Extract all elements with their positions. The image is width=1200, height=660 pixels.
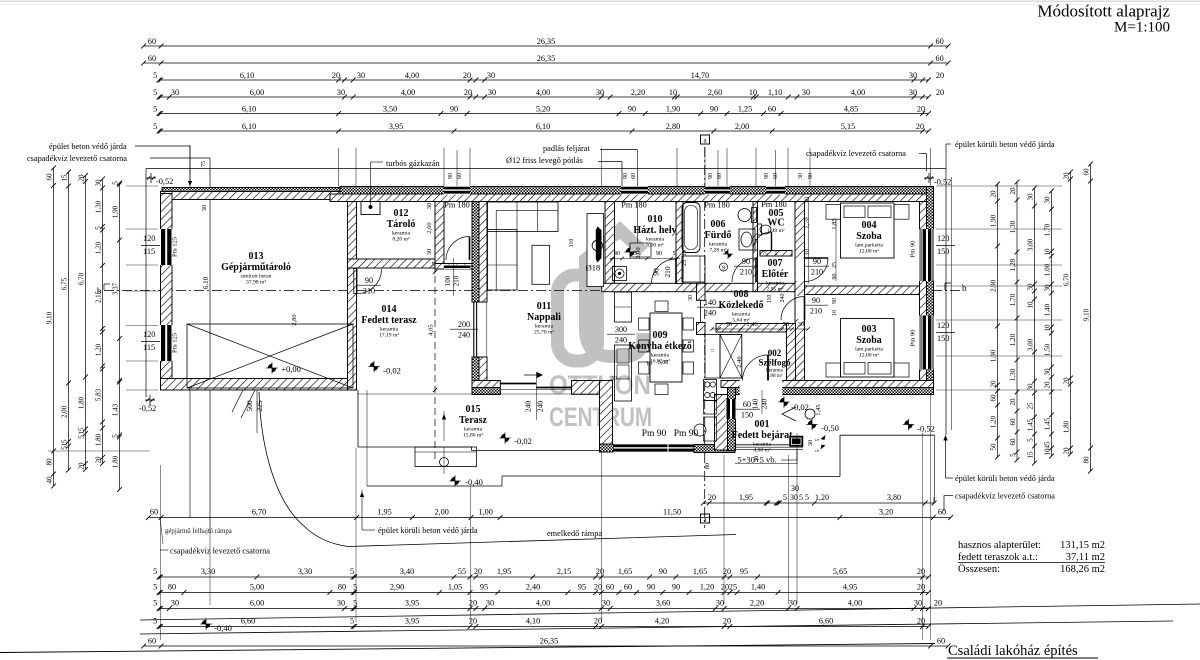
svg-text:4,95: 4,95 — [843, 583, 857, 592]
svg-text:4,00: 4,00 — [851, 88, 865, 97]
nappali east wall upper — [605, 202, 615, 292]
svg-text:3,37: 3,37 — [112, 282, 120, 295]
row C (y=592.5) — [159, 592, 929, 594]
svg-text:60: 60 — [631, 173, 637, 179]
svg-text:003: 003 — [862, 324, 877, 335]
corridor->003 door — [804, 297, 806, 321]
svg-text:120: 120 — [937, 321, 949, 330]
pantry shelf + szélfogó closet — [705, 335, 720, 379]
svg-text:20: 20 — [934, 599, 942, 608]
svg-text:30: 30 — [611, 376, 617, 382]
svg-text:30: 30 — [337, 88, 345, 97]
svg-text:padlás feljárat: padlás feljárat — [543, 144, 590, 153]
svg-text:15: 15 — [61, 439, 69, 447]
svg-text:-0,02: -0,02 — [514, 436, 532, 446]
svg-text:60: 60 — [606, 583, 614, 592]
section line a-a vertical — [704, 147, 706, 528]
svg-text:20: 20 — [990, 190, 998, 198]
chimney niche — [587, 214, 604, 287]
row 6 — [159, 130, 929, 132]
svg-text:30: 30 — [486, 599, 494, 608]
svg-text:210: 210 — [663, 266, 672, 278]
svg-text:30: 30 — [791, 484, 799, 493]
svg-text:90: 90 — [623, 173, 629, 179]
svg-text:007: 007 — [768, 258, 783, 269]
svg-text:3,50: 3,50 — [383, 104, 397, 113]
svg-text:1,30: 1,30 — [1009, 368, 1017, 381]
row 3 — [159, 79, 929, 81]
svg-text:004: 004 — [862, 220, 877, 231]
svg-text:14,70: 14,70 — [691, 71, 709, 80]
svg-text:csapadékvíz levezető csatorna: csapadékvíz levezető csatorna — [27, 154, 127, 163]
svg-text:006: 006 — [711, 219, 726, 230]
svg-text:1,40: 1,40 — [1044, 303, 1052, 316]
fürdő door (to corridor) — [755, 258, 757, 282]
svg-text:95: 95 — [480, 583, 488, 592]
svg-text:épület körüli beton védő járda: épület körüli beton védő járda — [378, 526, 478, 535]
svg-text:90: 90 — [647, 583, 655, 592]
kitchen counter along west — [615, 292, 632, 322]
svg-text:20: 20 — [469, 599, 477, 608]
svg-text:120: 120 — [937, 234, 949, 243]
svg-text:1,49 m²: 1,49 m² — [767, 228, 785, 234]
svg-text:5: 5 — [353, 583, 357, 592]
svg-text:Tároló: Tároló — [387, 219, 416, 230]
row A (y=517.5) — [148, 517, 950, 519]
svg-text:240: 240 — [780, 294, 786, 303]
svg-text:4,05: 4,05 — [428, 324, 435, 335]
svg-text:1,20: 1,20 — [990, 415, 998, 428]
porch west stub wall with window — [715, 395, 728, 451]
svg-text:240: 240 — [704, 309, 716, 318]
svg-text:20: 20 — [1009, 187, 1017, 195]
svg-text:20: 20 — [917, 567, 925, 576]
svg-text:200: 200 — [458, 320, 470, 329]
svg-text:20: 20 — [708, 493, 716, 502]
bed 003 — [826, 363, 841, 377]
row 4 — [159, 96, 929, 98]
svg-text:30: 30 — [95, 179, 103, 187]
svg-text:Fürdő: Fürdő — [705, 230, 732, 241]
svg-text:26,35: 26,35 — [540, 637, 558, 646]
svg-text:3,40: 3,40 — [400, 567, 414, 576]
svg-text:Gépjárműtároló: Gépjárműtároló — [221, 262, 291, 273]
svg-text:Pm 180: Pm 180 — [704, 201, 730, 210]
svg-text:5+30+5 vb.: 5+30+5 vb. — [737, 455, 776, 465]
svg-text:-0,50: -0,50 — [821, 423, 839, 433]
svg-text:168,26 m2: 168,26 m2 — [1060, 564, 1105, 575]
svg-text:csapadékvíz levezető csatorna: csapadékvíz levezető csatorna — [955, 492, 1055, 501]
taroló east niche door — [469, 237, 471, 261]
svg-text:012: 012 — [394, 208, 409, 219]
svg-text:4,00 m²: 4,00 m² — [753, 448, 771, 454]
svg-text:2,90: 2,90 — [990, 279, 998, 292]
svg-text:150: 150 — [741, 411, 753, 420]
svg-text:6,00 m²: 6,00 m² — [646, 243, 664, 249]
svg-text:1,43: 1,43 — [112, 403, 120, 416]
svg-text:15,86 m²: 15,86 m² — [463, 433, 483, 439]
svg-text:3,00: 3,00 — [1027, 338, 1035, 351]
svg-text:140: 140 — [704, 298, 716, 307]
svg-text:60: 60 — [150, 508, 158, 517]
svg-text:30: 30 — [596, 88, 604, 97]
svg-text:1,90: 1,90 — [990, 349, 998, 362]
svg-text:2,95 m²: 2,95 m² — [766, 287, 784, 293]
svg-text:110: 110 — [767, 295, 773, 304]
svg-text:1,70: 1,70 — [1044, 223, 1052, 236]
svg-text:Összesen:: Összesen: — [958, 563, 1000, 575]
svg-text:20: 20 — [916, 122, 924, 131]
svg-text:210: 210 — [810, 307, 822, 316]
fürdő/wc west wall — [753, 202, 758, 292]
wc toilet (small) — [758, 224, 762, 235]
svg-text:10: 10 — [1027, 301, 1035, 309]
svg-text:30: 30 — [1027, 383, 1035, 391]
svg-text:=: = — [711, 347, 715, 355]
svg-text:013: 013 — [249, 251, 264, 262]
svg-text:5: 5 — [783, 493, 787, 502]
svg-text:55: 55 — [458, 567, 466, 576]
corridor south wall — [716, 324, 790, 333]
svg-text:011: 011 — [537, 301, 551, 312]
svg-text:25: 25 — [832, 262, 838, 268]
svg-text:4,00: 4,00 — [401, 88, 415, 97]
svg-text:115: 115 — [143, 343, 155, 352]
svg-text:10: 10 — [749, 88, 757, 97]
svg-text:5: 5 — [815, 449, 821, 452]
svg-text:5: 5 — [153, 617, 157, 626]
svg-text:5: 5 — [78, 435, 86, 439]
svg-text:210: 210 — [740, 268, 752, 277]
svg-text:26,35: 26,35 — [537, 54, 555, 63]
svg-text:10: 10 — [832, 310, 838, 316]
svg-text:008: 008 — [734, 289, 749, 300]
svg-text:1,95: 1,95 — [739, 493, 753, 502]
svg-text:5: 5 — [673, 251, 676, 257]
svg-text:30: 30 — [805, 197, 811, 203]
svg-text:20: 20 — [1063, 377, 1071, 385]
svg-text:Szoba: Szoba — [856, 231, 882, 242]
svg-text:3,95: 3,95 — [405, 617, 419, 626]
svg-text:1,90: 1,90 — [112, 205, 120, 218]
svg-text:12,00 m²: 12,00 m² — [859, 249, 879, 255]
svg-text:3,30: 3,30 — [201, 567, 215, 576]
svg-text:15: 15 — [1027, 451, 1035, 459]
svg-text:5: 5 — [112, 434, 120, 438]
nappali sofa — [488, 202, 559, 232]
svg-text:20: 20 — [332, 71, 340, 80]
rows 1-2 — [144, 45, 949, 47]
svg-text:20: 20 — [990, 380, 998, 388]
svg-text:1,30: 1,30 — [1009, 220, 1017, 233]
svg-text:-0,40: -0,40 — [214, 623, 232, 633]
svg-text:30: 30 — [807, 440, 814, 447]
svg-text:-0,02: -0,02 — [383, 366, 401, 376]
svg-text:Fedett terasz: Fedett terasz — [361, 315, 417, 326]
svg-text:2,00: 2,00 — [735, 122, 749, 131]
svg-text:5: 5 — [153, 567, 157, 576]
svg-text:20: 20 — [1044, 381, 1052, 389]
svg-text:20: 20 — [78, 174, 86, 182]
svg-text:90: 90 — [813, 257, 821, 266]
svg-text:90: 90 — [450, 104, 458, 113]
svg-text:9,10: 9,10 — [1083, 308, 1091, 321]
svg-text:90: 90 — [742, 257, 750, 266]
svg-text:-0,52: -0,52 — [139, 404, 156, 413]
svg-text:15: 15 — [61, 174, 69, 182]
svg-text:2,00: 2,00 — [61, 405, 69, 418]
svg-text:2,80: 2,80 — [666, 122, 680, 131]
svg-text:4,10: 4,10 — [526, 617, 540, 626]
svg-text:5: 5 — [1027, 438, 1035, 442]
svg-text:120: 120 — [143, 330, 155, 339]
svg-text:90: 90 — [448, 173, 454, 179]
svg-text:90: 90 — [659, 567, 667, 576]
svg-text:2,15: 2,15 — [557, 567, 571, 576]
svg-text:30: 30 — [426, 249, 433, 256]
fürdő washbasin (east wall) — [739, 229, 755, 250]
svg-text:014: 014 — [382, 304, 397, 315]
svg-text:240: 240 — [761, 398, 769, 409]
svg-text:4,85: 4,85 — [844, 104, 858, 113]
svg-text:1,40: 1,40 — [751, 583, 765, 592]
row E (y=626.5) — [159, 626, 929, 628]
svg-text:5: 5 — [1009, 453, 1017, 457]
svg-text:Terasz: Terasz — [459, 415, 488, 426]
házt.hely/fürdő wall — [676, 202, 683, 284]
svg-text:Konyha étkező: Konyha étkező — [628, 341, 692, 352]
svg-text:17,19 m²: 17,19 m² — [379, 333, 399, 339]
svg-text:Pm 90: Pm 90 — [642, 429, 667, 439]
svg-text:Szoba: Szoba — [856, 335, 882, 346]
svg-text:7,28 m²: 7,28 m² — [709, 248, 727, 254]
svg-text:5: 5 — [153, 599, 157, 608]
svg-text:95: 95 — [578, 583, 586, 592]
svg-text:90: 90 — [628, 104, 636, 113]
svg-text:3,60: 3,60 — [656, 599, 670, 608]
kitchen/corridor wall — [697, 283, 706, 300]
svg-text:fedett teraszok a.t.:: fedett teraszok a.t.: — [958, 552, 1038, 563]
svg-text:20: 20 — [936, 88, 944, 97]
garage south wall — [161, 379, 357, 391]
svg-text:90: 90 — [832, 298, 838, 304]
házt.hely door — [675, 259, 677, 284]
svg-text:4,20: 4,20 — [655, 617, 669, 626]
svg-text:5: 5 — [815, 438, 821, 441]
svg-text:30: 30 — [487, 71, 495, 80]
fürdő: bathtub — [682, 203, 700, 253]
svg-text:30: 30 — [1027, 193, 1035, 201]
svg-text:20: 20 — [594, 617, 602, 626]
svg-text:90: 90 — [710, 104, 718, 113]
svg-text:80: 80 — [1083, 456, 1091, 464]
svg-text:Pm 90: Pm 90 — [910, 241, 917, 258]
svg-text:1,20: 1,20 — [95, 343, 103, 356]
svg-text:5: 5 — [153, 104, 157, 113]
svg-text:75: 75 — [726, 321, 733, 328]
svg-text:90: 90 — [764, 173, 770, 179]
shower/washer block below tub — [682, 256, 705, 282]
svg-text:20: 20 — [474, 567, 482, 576]
section: LEVEL MARKERS — [268, 364, 276, 372]
main north wall: checker upper + hatch lower — [340, 187, 933, 195]
terasz-north wall lower piece with opening 100/210 — [435, 264, 472, 270]
svg-text:240: 240 — [536, 401, 545, 413]
small right row (y=503) — [703, 502, 934, 504]
garage north wall — [162, 188, 356, 192]
svg-text:-0,52: -0,52 — [156, 177, 173, 186]
svg-text:3,30: 3,30 — [298, 567, 312, 576]
svg-text:45: 45 — [1044, 441, 1052, 449]
svg-text:turbós gázkazán: turbós gázkazán — [386, 159, 441, 168]
svg-text:2,00: 2,00 — [435, 508, 449, 517]
svg-text:60: 60 — [938, 508, 946, 517]
svg-text:WC: WC — [767, 218, 784, 229]
svg-text:60: 60 — [717, 173, 723, 179]
taroló->terasz door — [354, 269, 357, 294]
svg-text:25: 25 — [729, 583, 737, 592]
svg-text:1,00: 1,00 — [479, 508, 493, 517]
svg-text:150: 150 — [937, 334, 949, 343]
svg-text:-0,52: -0,52 — [917, 424, 935, 434]
section: LEFT DIM COLS — [53, 168, 55, 486]
fürdő level star + drain — [724, 250, 731, 257]
svg-text:100: 100 — [444, 275, 452, 286]
svg-text:30: 30 — [914, 599, 922, 608]
svg-text:90: 90 — [832, 274, 838, 280]
svg-text:csapadékvíz levezető csatorna: csapadékvíz levezető csatorna — [806, 149, 906, 158]
svg-text:30: 30 — [357, 71, 365, 80]
svg-text:210: 210 — [811, 268, 823, 277]
east wall: hatch + checker outer — [920, 202, 927, 395]
svg-text:30: 30 — [337, 599, 345, 608]
svg-text:120: 120 — [143, 234, 155, 243]
svg-text:20: 20 — [1009, 398, 1017, 406]
nappali west wall — [472, 202, 479, 303]
wc door — [771, 232, 773, 251]
front door leaf (open into szélfogó) — [767, 355, 769, 381]
svg-text:60: 60 — [936, 54, 944, 63]
svg-text:20: 20 — [594, 583, 602, 592]
svg-text:3,95: 3,95 — [389, 122, 403, 131]
svg-text:5,00: 5,00 — [250, 583, 264, 592]
site / terrain sloped lines — [140, 604, 1200, 620]
svg-text:2,40: 2,40 — [736, 356, 743, 367]
attic hatch in házt.hely + dim chain — [630, 243, 651, 257]
svg-text:5: 5 — [432, 262, 435, 268]
svg-text:25: 25 — [1027, 402, 1035, 410]
svg-text:40: 40 — [614, 251, 620, 257]
svg-text:1,05: 1,05 — [448, 583, 462, 592]
main south wall (szélfogó/bedrooms) — [721, 381, 934, 388]
svg-text:8: 8 — [722, 266, 725, 272]
svg-text:5: 5 — [112, 181, 120, 185]
svg-text:4,00: 4,00 — [536, 599, 550, 608]
svg-text:1,20: 1,20 — [1009, 258, 1017, 271]
svg-text:30: 30 — [789, 599, 797, 608]
vertical extension lines down from plan — [160, 465, 162, 640]
sliding door south nappali — [500, 383, 536, 385]
svg-text:5: 5 — [95, 226, 103, 230]
section line b-b horizontal — [104, 290, 960, 292]
row 5 — [159, 113, 929, 115]
svg-text:002: 002 — [768, 348, 782, 358]
szélfogó east wall — [787, 324, 796, 381]
svg-text:240: 240 — [524, 401, 533, 413]
svg-text:Nappali: Nappali — [527, 312, 561, 323]
svg-text:20: 20 — [469, 617, 477, 626]
section: WATERMARK — [549, 230, 652, 432]
svg-text:30: 30 — [602, 599, 610, 608]
svg-text:37,11 m2: 37,11 m2 — [1066, 552, 1105, 563]
svg-text:50: 50 — [990, 443, 998, 451]
svg-text:Pm 180: Pm 180 — [621, 201, 647, 210]
svg-text:6,10: 6,10 — [240, 71, 254, 80]
svg-text:6,70: 6,70 — [78, 272, 86, 285]
row D (y=608.5) — [159, 608, 929, 610]
svg-text:8,20 m²: 8,20 m² — [392, 237, 410, 243]
svg-text:60: 60 — [457, 173, 463, 179]
svg-text:75: 75 — [762, 251, 768, 257]
svg-text:5: 5 — [805, 493, 809, 502]
wc/elotér wall — [760, 251, 792, 257]
svg-text:1,70: 1,70 — [1009, 293, 1017, 306]
svg-text:6,10: 6,10 — [242, 104, 256, 113]
svg-text:30: 30 — [1044, 284, 1052, 292]
svg-text:60: 60 — [773, 173, 779, 179]
fürdő toilet (east wall) — [752, 208, 757, 223]
svg-text:60: 60 — [936, 37, 944, 46]
svg-text:90: 90 — [672, 583, 680, 592]
svg-text:60: 60 — [1083, 168, 1091, 176]
svg-text:15: 15 — [78, 427, 86, 435]
svg-text:1,20: 1,20 — [700, 583, 714, 592]
svg-text:80: 80 — [168, 583, 176, 592]
svg-text:30: 30 — [488, 88, 496, 97]
svg-text:60: 60 — [148, 54, 156, 63]
boiler box in taroló — [361, 202, 380, 215]
svg-text:25: 25 — [682, 260, 688, 266]
svg-text:6,00: 6,00 — [250, 88, 264, 97]
svg-text:+0,00: +0,00 — [281, 364, 301, 374]
svg-text:20: 20 — [1063, 447, 1071, 455]
svg-text:30: 30 — [1027, 283, 1035, 291]
svg-text:1,65: 1,65 — [618, 567, 632, 576]
svg-text:240: 240 — [458, 331, 470, 340]
svg-text:1,80: 1,80 — [1063, 420, 1071, 433]
svg-text:Ø18: Ø18 — [586, 263, 601, 273]
svg-text:60: 60 — [743, 400, 751, 409]
second vertical dashed line through taroló/terasz — [434, 188, 436, 462]
svg-text:csapadékvíz levezető csatorna: csapadékvíz levezető csatorna — [170, 547, 270, 556]
svg-text:20: 20 — [464, 88, 472, 97]
svg-text:Pm 90: Pm 90 — [674, 429, 699, 439]
svg-text:95: 95 — [740, 567, 748, 576]
svg-text:3,95: 3,95 — [405, 599, 419, 608]
porch floor + steps — [735, 444, 804, 446]
svg-text:30: 30 — [171, 88, 179, 97]
svg-text:9,10: 9,10 — [46, 311, 54, 324]
svg-text:90: 90 — [808, 173, 814, 179]
svg-text:20: 20 — [917, 617, 925, 626]
svg-text:30: 30 — [798, 173, 804, 179]
svg-text:60: 60 — [937, 637, 945, 646]
svg-text:Pm 125: Pm 125 — [172, 237, 179, 257]
svg-text:010: 010 — [648, 214, 663, 225]
svg-text:6,60: 6,60 — [819, 617, 833, 626]
svg-text:6,70: 6,70 — [1063, 273, 1071, 286]
garage/taroló wall + continuation down (terasz west wall) — [348, 202, 357, 391]
